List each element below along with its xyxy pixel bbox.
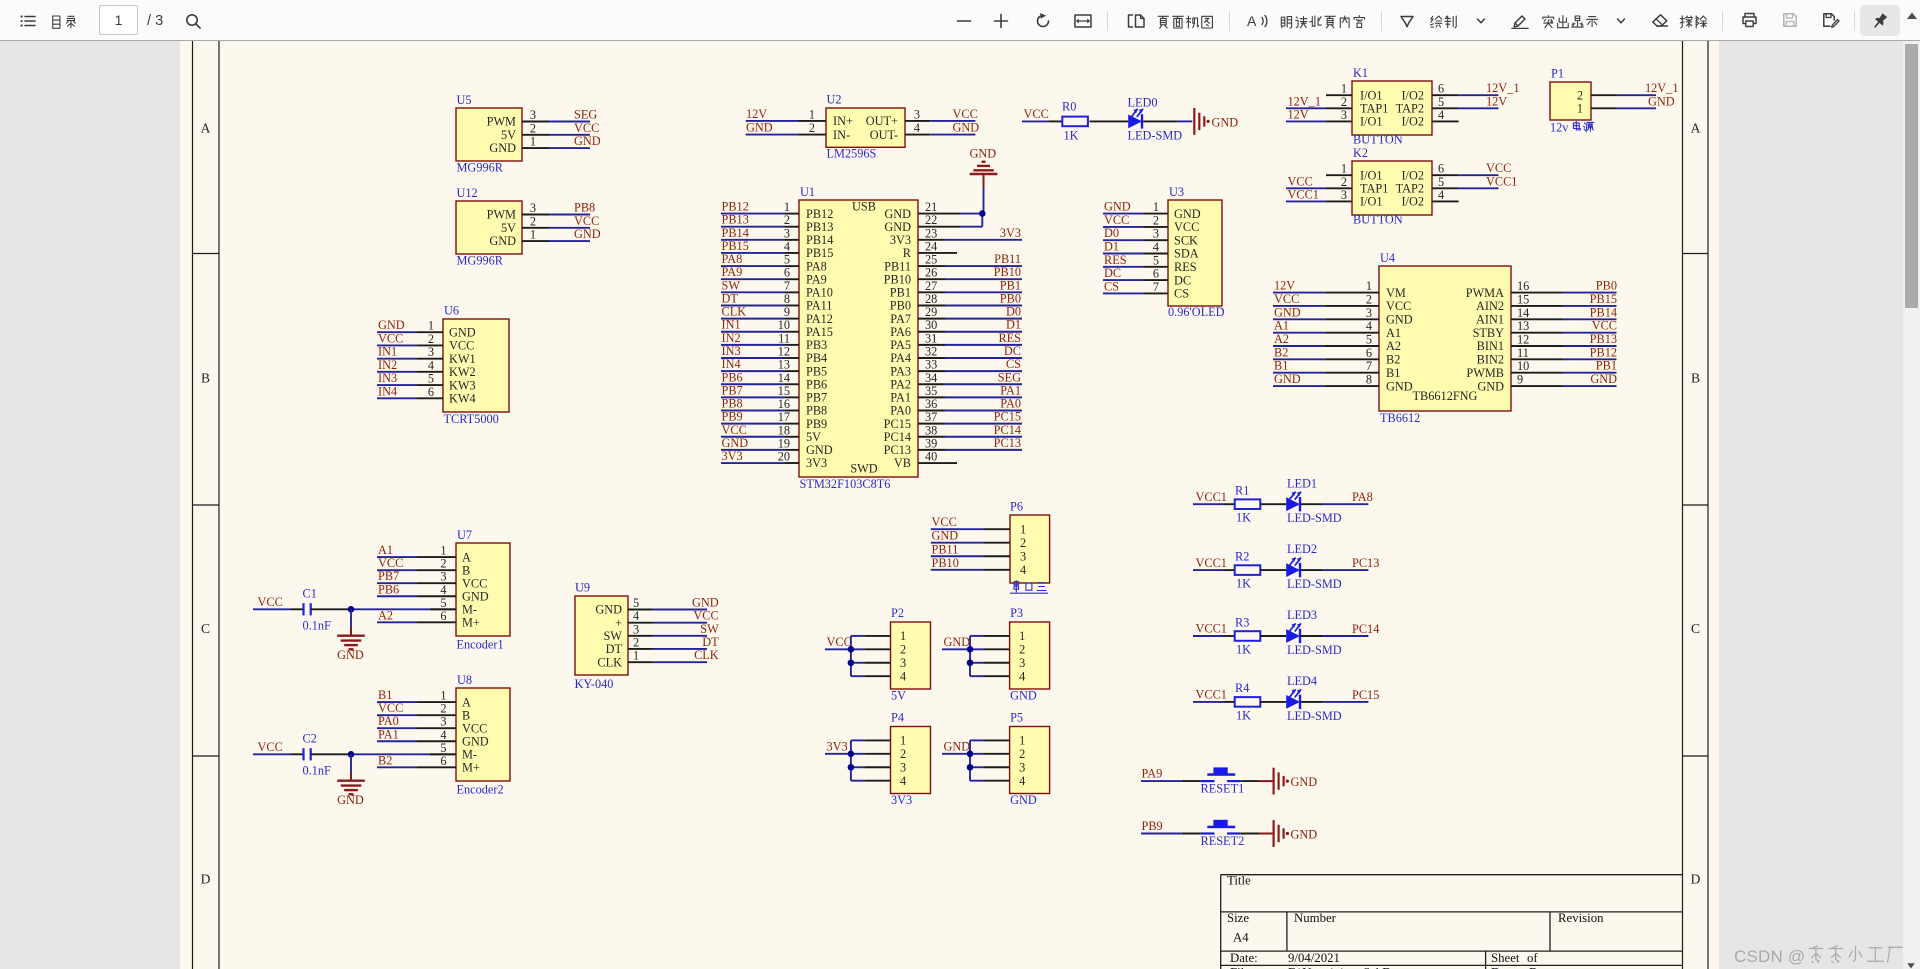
component box <box>1352 161 1432 215</box>
svg-text:GND: GND <box>1386 379 1413 393</box>
svg-text:Encoder1: Encoder1 <box>457 638 504 652</box>
svg-text:R1: R1 <box>1235 484 1249 498</box>
svg-text:LED-SMD: LED-SMD <box>1287 709 1342 723</box>
svg-text:1: 1 <box>440 689 446 703</box>
net PB14 <box>721 239 785 241</box>
svg-text:CLK: CLK <box>597 655 622 669</box>
svg-text:DC: DC <box>1004 344 1021 358</box>
svg-text:4: 4 <box>440 728 446 742</box>
svg-text:4: 4 <box>1438 108 1444 122</box>
net D0 <box>1103 239 1144 241</box>
ground symbol GND <box>1193 108 1195 135</box>
svg-text:PA10: PA10 <box>806 286 833 300</box>
title block <box>1221 874 1683 969</box>
net PA9 <box>721 278 785 280</box>
junction <box>967 764 974 771</box>
svg-text:M-: M- <box>462 748 477 762</box>
svg-text:LED4: LED4 <box>1287 674 1317 688</box>
component box <box>456 108 522 161</box>
svg-text:9/04/2021: 9/04/2021 <box>1288 951 1340 965</box>
svg-text:IN3: IN3 <box>722 344 741 358</box>
svg-text:3: 3 <box>440 715 446 729</box>
svg-text:GND: GND <box>489 234 516 248</box>
net D1 <box>945 331 1022 333</box>
svg-text:PB15: PB15 <box>1590 292 1617 306</box>
net VCC <box>1563 332 1617 334</box>
svg-text:37: 37 <box>925 410 937 424</box>
svg-text:VCC1: VCC1 <box>1196 622 1227 636</box>
svg-text:VCC: VCC <box>574 121 599 135</box>
svg-text:6: 6 <box>1153 267 1159 281</box>
component box <box>1010 515 1050 583</box>
svg-text:VM: VM <box>1386 286 1406 300</box>
ground symbol GND <box>337 780 365 782</box>
svg-text:BIN1: BIN1 <box>1477 339 1504 353</box>
component box <box>456 688 510 781</box>
svg-text:4: 4 <box>914 121 920 135</box>
net PB0 <box>945 304 1022 306</box>
svg-text:39: 39 <box>925 436 937 450</box>
svg-text:1: 1 <box>428 319 434 333</box>
net PC14 <box>1322 635 1368 637</box>
svg-text:3: 3 <box>440 570 446 584</box>
svg-text:VCC: VCC <box>574 214 599 228</box>
svg-text:33: 33 <box>925 358 937 372</box>
svg-text:6: 6 <box>1366 346 1372 360</box>
svg-text:USB: USB <box>852 200 876 214</box>
svg-text:5: 5 <box>1438 95 1444 109</box>
svg-text:PB13: PB13 <box>722 213 749 227</box>
svg-text:VCC: VCC <box>827 635 852 649</box>
svg-text:PA3: PA3 <box>890 364 911 378</box>
svg-text:A: A <box>1247 13 1257 29</box>
svg-text:F:\Users\..\car.SchDoc: F:\Users\..\car.SchDoc <box>1288 966 1404 969</box>
junction <box>967 751 974 758</box>
svg-text:CLK: CLK <box>722 305 747 319</box>
net PB0 <box>1563 292 1617 294</box>
svg-text:GND: GND <box>337 648 364 662</box>
resistor R3 1K <box>1235 631 1261 641</box>
svg-text:LED0: LED0 <box>1128 96 1158 110</box>
svg-text:+: + <box>615 616 622 630</box>
svg-text:7: 7 <box>1153 280 1159 294</box>
svg-text:GND: GND <box>449 325 476 339</box>
svg-text:KY-040: KY-040 <box>575 677 614 691</box>
svg-text:12V: 12V <box>1274 279 1295 293</box>
wire <box>1260 503 1286 505</box>
svg-text:SDA: SDA <box>1174 247 1199 261</box>
svg-text:LED1: LED1 <box>1287 476 1317 490</box>
svg-text:PB1: PB1 <box>890 286 911 300</box>
svg-text:11: 11 <box>1517 346 1529 360</box>
svg-text:2: 2 <box>1366 292 1372 306</box>
net PB6 <box>377 595 417 597</box>
svg-text:GND: GND <box>884 220 911 234</box>
net A1 <box>377 556 417 558</box>
svg-text:C2: C2 <box>303 732 317 746</box>
svg-text:5: 5 <box>1366 333 1372 347</box>
wire <box>1240 780 1259 782</box>
component box <box>1379 266 1511 411</box>
svg-text:GND: GND <box>337 793 364 807</box>
svg-text:U2: U2 <box>827 93 842 107</box>
svg-text:PB10: PB10 <box>884 272 911 286</box>
junction <box>348 606 355 613</box>
svg-text:TAP1: TAP1 <box>1360 102 1388 116</box>
connector P3 GND <box>942 606 1050 703</box>
net GND <box>549 240 590 242</box>
svg-text:PWM: PWM <box>487 115 516 129</box>
connector P6 serial <box>931 500 1050 594</box>
svg-text:R3: R3 <box>1235 615 1249 629</box>
net GND <box>549 147 590 149</box>
svg-text:RESET2: RESET2 <box>1201 834 1245 848</box>
component box <box>891 622 931 689</box>
net 12V <box>746 120 799 122</box>
net A2 <box>377 621 417 623</box>
svg-text:23: 23 <box>925 226 937 240</box>
svg-text:16: 16 <box>778 397 790 411</box>
svg-text:PB11: PB11 <box>884 259 911 273</box>
svg-text:Size: Size <box>1227 911 1249 925</box>
svg-text:A: A <box>1691 121 1701 136</box>
svg-text:3V3: 3V3 <box>890 233 911 247</box>
wire <box>1301 569 1322 571</box>
svg-text:KW3: KW3 <box>449 378 476 392</box>
svg-text:PA9: PA9 <box>722 265 743 279</box>
svg-text:IN2: IN2 <box>722 331 741 345</box>
svg-text:VCC: VCC <box>462 721 487 735</box>
LED indicator row R3/LED3 <box>1193 608 1379 657</box>
net PB14 <box>1563 318 1617 320</box>
svg-text:1: 1 <box>440 544 446 558</box>
net 3V3 <box>721 462 785 464</box>
svg-text:A: A <box>201 121 211 136</box>
svg-text:IN4: IN4 <box>722 357 741 371</box>
net IN2 <box>377 371 417 373</box>
svg-text:PB10: PB10 <box>932 556 959 570</box>
net GND <box>1563 385 1617 387</box>
svg-text:KW2: KW2 <box>449 365 476 379</box>
svg-text:1: 1 <box>1020 522 1026 536</box>
value label serial-3 <box>1014 581 1019 592</box>
junction <box>848 659 855 666</box>
svg-text:PB14: PB14 <box>1590 305 1617 319</box>
resistor R4 1K <box>1235 697 1261 707</box>
net VCC <box>721 436 785 438</box>
svg-text:2: 2 <box>530 121 536 135</box>
svg-text:17: 17 <box>778 410 790 424</box>
svg-text:12V: 12V <box>1288 107 1309 121</box>
net 12V <box>1286 120 1326 122</box>
svg-text:GND: GND <box>722 436 749 450</box>
svg-text:PA8: PA8 <box>806 259 827 273</box>
svg-text:11: 11 <box>778 331 790 345</box>
svg-text:DT: DT <box>722 291 739 305</box>
svg-text:PB12: PB12 <box>806 207 833 221</box>
svg-text:6: 6 <box>784 266 790 280</box>
svg-text:A: A <box>462 695 471 709</box>
svg-text:D: D <box>201 872 211 887</box>
svg-text:VCC: VCC <box>953 107 978 121</box>
pushbutton RESET2 <box>1201 832 1215 834</box>
svg-text:Title: Title <box>1227 874 1251 888</box>
svg-text:GND: GND <box>378 318 405 332</box>
net VCC <box>377 344 417 346</box>
svg-text:A2: A2 <box>1386 339 1401 353</box>
net GND <box>1617 107 1656 109</box>
net VCC <box>653 622 707 624</box>
svg-text:PA8: PA8 <box>722 252 743 266</box>
motor driver U4 TB6612FNG <box>1273 251 1617 425</box>
svg-text:3: 3 <box>428 345 434 359</box>
svg-text:GND: GND <box>884 207 911 221</box>
svg-text:2: 2 <box>900 643 906 657</box>
net PB15 <box>721 252 785 254</box>
wire to ground <box>350 609 352 627</box>
net IN1 <box>377 358 417 360</box>
wire <box>1240 833 1259 835</box>
LED LED0 LED-SMD <box>1128 115 1142 129</box>
svg-text:A: A <box>462 550 471 564</box>
svg-text:B1: B1 <box>378 688 392 702</box>
svg-text:VCC: VCC <box>462 576 487 590</box>
svg-text:PB5: PB5 <box>806 364 827 378</box>
LED LED2 LED-SMD <box>1286 563 1300 577</box>
svg-text:CS: CS <box>1174 287 1189 301</box>
junction <box>348 751 355 758</box>
svg-text:12V: 12V <box>746 107 767 121</box>
net VCC <box>377 569 417 571</box>
svg-text:PB1: PB1 <box>1000 278 1021 292</box>
net VCC <box>1286 187 1326 189</box>
svg-text:4: 4 <box>1438 188 1444 202</box>
LED LED4 LED-SMD <box>1286 695 1300 709</box>
net VCC <box>930 120 975 122</box>
capacitor C1 0.1nF <box>302 603 304 615</box>
svg-text:R0: R0 <box>1062 100 1076 114</box>
svg-text:PC13: PC13 <box>1352 556 1379 570</box>
button K2 <box>1286 146 1517 227</box>
svg-text:3V3: 3V3 <box>1000 226 1021 240</box>
svg-text:GND: GND <box>462 734 489 748</box>
net CLK <box>653 661 707 663</box>
svg-text:1K: 1K <box>1236 708 1251 722</box>
wire <box>1260 701 1286 703</box>
svg-text:5: 5 <box>1153 253 1159 267</box>
svg-text:2: 2 <box>1019 643 1025 657</box>
svg-text:A2: A2 <box>1274 332 1289 346</box>
svg-text:PWMA: PWMA <box>1466 286 1504 300</box>
svg-text:DT: DT <box>702 635 719 649</box>
net SEG <box>945 383 1022 385</box>
net IN3 <box>377 384 417 386</box>
svg-text:2: 2 <box>900 747 906 761</box>
svg-text:P6: P6 <box>1010 500 1023 514</box>
svg-text:Sheet: Sheet <box>1491 951 1520 965</box>
svg-text:VCC: VCC <box>258 740 283 754</box>
net PB8 <box>549 214 590 216</box>
svg-text:Date:: Date: <box>1230 951 1258 965</box>
LED LED3 LED-SMD <box>1286 629 1300 643</box>
net CLK <box>721 318 785 320</box>
svg-text:2: 2 <box>440 557 446 571</box>
wire <box>1089 120 1128 122</box>
svg-text:GND: GND <box>1010 793 1037 807</box>
svg-text:TB6612: TB6612 <box>1380 411 1420 425</box>
ground symbol GND <box>1272 820 1274 847</box>
wire <box>1260 635 1286 637</box>
svg-text:PB8: PB8 <box>722 397 743 411</box>
svg-text:A4: A4 <box>1233 931 1249 945</box>
svg-text:GND: GND <box>1648 94 1675 108</box>
svg-text:6: 6 <box>428 385 434 399</box>
svg-text:PB1: PB1 <box>1596 359 1617 373</box>
net GND <box>1273 318 1325 320</box>
svg-text:GND: GND <box>1274 372 1301 386</box>
svg-text:3: 3 <box>900 656 906 670</box>
svg-text:16: 16 <box>1517 279 1529 293</box>
LED indicator row R0/LED0 <box>1022 96 1238 143</box>
net PC14 <box>945 436 1022 438</box>
svg-text:BUTTON: BUTTON <box>1353 133 1403 147</box>
svg-text:2: 2 <box>1341 95 1347 109</box>
svg-text:3: 3 <box>1341 108 1347 122</box>
svg-text:2: 2 <box>1153 213 1159 227</box>
svg-text:3: 3 <box>530 108 536 122</box>
junction <box>848 764 855 771</box>
svg-text:3: 3 <box>1020 549 1026 563</box>
svg-text:VCC: VCC <box>1274 292 1299 306</box>
svg-text:GND: GND <box>574 134 601 148</box>
svg-text:PB7: PB7 <box>806 391 827 405</box>
net SW <box>653 635 707 637</box>
svg-text:PA9: PA9 <box>1142 767 1163 781</box>
svg-text:31: 31 <box>925 331 937 345</box>
svg-text:LM2596S: LM2596S <box>827 147 877 161</box>
svg-text:IN3: IN3 <box>378 371 397 385</box>
svg-text:PB12: PB12 <box>722 200 749 214</box>
svg-text:PB13: PB13 <box>806 220 833 234</box>
svg-text:32: 32 <box>925 344 937 358</box>
svg-text:TB6612FNG: TB6612FNG <box>1413 389 1478 403</box>
net VCC <box>549 227 590 229</box>
svg-text:I/O1: I/O1 <box>1360 168 1383 182</box>
svg-text:U12: U12 <box>457 186 478 200</box>
svg-text:5V: 5V <box>806 430 821 444</box>
svg-text:PWM: PWM <box>487 208 516 222</box>
svg-text:1: 1 <box>530 135 536 149</box>
svg-text:7: 7 <box>1366 359 1372 373</box>
svg-text:19: 19 <box>778 436 790 450</box>
svg-text:VCC1: VCC1 <box>1196 556 1227 570</box>
svg-text:PA1: PA1 <box>890 391 911 405</box>
svg-text:B: B <box>462 563 470 577</box>
svg-text:VCC: VCC <box>693 609 718 623</box>
svg-text:PB8: PB8 <box>574 201 595 215</box>
svg-text:A2: A2 <box>378 608 393 622</box>
net 12V_1 <box>1617 94 1656 96</box>
svg-text:D0: D0 <box>1104 226 1119 240</box>
component box <box>1168 200 1222 306</box>
net 12V_1 <box>1459 94 1499 96</box>
svg-text:PB6: PB6 <box>378 582 399 596</box>
svg-text:RESET1: RESET1 <box>1201 782 1245 796</box>
net D1 <box>1103 253 1144 255</box>
svg-text:RES: RES <box>998 331 1021 345</box>
svg-text:GND: GND <box>1010 689 1037 703</box>
svg-text:1K: 1K <box>1236 511 1251 525</box>
net PB7 <box>721 396 785 398</box>
svg-text:VCC: VCC <box>1024 107 1049 121</box>
wire to ground <box>350 754 352 772</box>
svg-text:8: 8 <box>784 292 790 306</box>
component box <box>826 108 905 147</box>
svg-text:B2: B2 <box>378 753 392 767</box>
svg-text:12V: 12V <box>1486 94 1507 108</box>
wire <box>1301 701 1322 703</box>
svg-text:PA15: PA15 <box>806 325 833 339</box>
svg-text:R: R <box>903 246 912 260</box>
svg-text:LED-SMD: LED-SMD <box>1287 511 1342 525</box>
svg-text:B1: B1 <box>1274 359 1288 373</box>
svg-text:GND: GND <box>574 227 601 241</box>
svg-text:GND: GND <box>806 443 833 457</box>
svg-text:PB14: PB14 <box>806 233 833 247</box>
svg-text:3: 3 <box>1019 656 1025 670</box>
svg-text:13: 13 <box>778 358 790 372</box>
svg-text:PB14: PB14 <box>722 226 749 240</box>
net VCC <box>377 714 417 716</box>
svg-text:PA8: PA8 <box>1352 490 1373 504</box>
svg-text:U9: U9 <box>575 581 590 595</box>
svg-text:B2: B2 <box>1386 353 1400 367</box>
pushbutton RESET1 <box>1201 780 1215 782</box>
net PB13 <box>721 226 785 228</box>
svg-text:3: 3 <box>1341 188 1347 202</box>
svg-text:2: 2 <box>1577 88 1583 102</box>
svg-text:VCC: VCC <box>378 701 403 715</box>
net GND <box>377 331 417 333</box>
net PA1 <box>377 740 417 742</box>
svg-text:1: 1 <box>1577 102 1583 116</box>
net PB1 <box>945 291 1022 293</box>
svg-text:4: 4 <box>784 239 790 253</box>
svg-text:1: 1 <box>1153 200 1159 214</box>
svg-text:U7: U7 <box>457 528 472 542</box>
svg-text:15: 15 <box>778 384 790 398</box>
svg-text:GND: GND <box>1477 379 1504 393</box>
svg-text:3: 3 <box>784 226 790 240</box>
svg-text:PA1: PA1 <box>1000 383 1021 397</box>
svg-text:4: 4 <box>1153 240 1159 254</box>
svg-text:3: 3 <box>530 201 536 215</box>
svg-text:GND: GND <box>932 529 959 543</box>
svg-text:C: C <box>201 621 210 636</box>
svg-text:PA5: PA5 <box>890 338 911 352</box>
svg-text:3V3: 3V3 <box>722 449 743 463</box>
net PB11 <box>931 555 983 557</box>
net IN3 <box>721 357 785 359</box>
svg-text:VCC: VCC <box>1174 220 1199 234</box>
ground symbol GND <box>1272 768 1274 795</box>
svg-text:MG996R: MG996R <box>457 254 504 268</box>
svg-text:GND: GND <box>1274 305 1301 319</box>
svg-text:SEG: SEG <box>998 370 1021 384</box>
svg-text:SW: SW <box>722 278 741 292</box>
net GND <box>930 134 975 136</box>
svg-text:VCC: VCC <box>378 556 403 570</box>
